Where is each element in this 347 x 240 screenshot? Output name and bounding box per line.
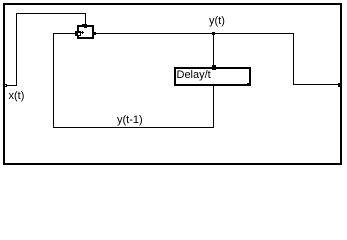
wire horizontal along top to summer: [16, 13, 86, 14]
wire drop into summer top pin: [85, 13, 86, 25]
wire to output pin on right frame: [293, 84, 338, 85]
wire from x(t) pin to vertical riser: [7, 85, 17, 86]
wire junction down to delay block: [213, 33, 214, 67]
svg-text:y(t): y(t): [209, 15, 225, 27]
summer plus sign top input: [82, 24, 84, 25]
delay block top input pin: [212, 65, 216, 70]
wire feedback bottom run: [53, 127, 214, 128]
summer right output pin: [94, 32, 96, 35]
svg-text:y(t-1): y(t-1): [117, 114, 143, 126]
svg-text:x(t): x(t): [9, 90, 25, 102]
summer plus sign left input: [81, 31, 84, 34]
node output pin on right frame: [338, 83, 342, 87]
delay block U2 Delay/t: [174, 67, 251, 86]
summing junction block U1: [77, 25, 94, 39]
summer top input pin: [84, 24, 87, 28]
wire delay block output down: [213, 86, 214, 127]
delay block corner mark: [247, 83, 249, 85]
wire feedback left vertical: [53, 33, 54, 127]
wire summer output to right corner: [94, 33, 293, 34]
node x(t) input pin on left frame: [4, 84, 7, 87]
summer left input pin: [75, 31, 81, 36]
node y(t) junction dot: [212, 32, 215, 35]
compound block boundary frame: [3, 3, 342, 165]
wire feedback into summer left pin: [53, 33, 77, 34]
wire vertical riser on left: [16, 13, 17, 86]
wire right side vertical drop: [293, 33, 294, 85]
svg-text:Delay/t: Delay/t: [177, 69, 211, 81]
